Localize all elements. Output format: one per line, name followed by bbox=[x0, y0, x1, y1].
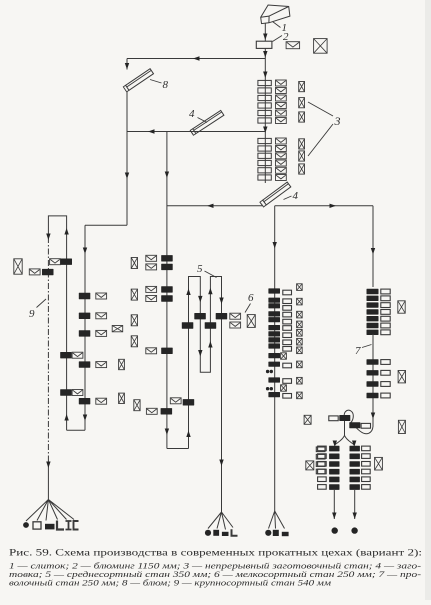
mill7 left wire down bbox=[332, 490, 336, 519]
wire mid junction bbox=[263, 127, 267, 134]
mill7 middle stands bbox=[367, 359, 391, 398]
wire blooming down bbox=[263, 48, 267, 80]
wire branch y131 (billet line) bbox=[127, 129, 265, 133]
mill6 dots bbox=[266, 370, 273, 391]
mill9 crossed box far left bbox=[14, 259, 22, 274]
svg-text:Рис. 59. Схема производства в: Рис. 59. Схема производства в современны… bbox=[9, 548, 422, 559]
mill7 right wire down bbox=[353, 490, 357, 519]
center small crossed boxes bbox=[119, 359, 141, 410]
mill5 product angle bbox=[232, 529, 238, 536]
center crossed hbox bbox=[112, 326, 123, 332]
wire bloom drop bbox=[125, 59, 129, 70]
mill5 product round bbox=[205, 530, 211, 536]
mill6 lower open rects bbox=[316, 447, 325, 474]
mill9 product square bbox=[33, 522, 41, 529]
label 3 bbox=[308, 102, 341, 156]
svg-text:волочный стан 250 мм; 8 — блюм: волочный стан 250 мм; 8 — блюм; 9 — круп… bbox=[9, 578, 332, 588]
wire y206 left bbox=[167, 204, 262, 208]
billet 4 right (3D bar) bbox=[260, 182, 291, 207]
blooming mill 2 (rect) bbox=[256, 41, 272, 48]
mill9 up arrows x66 bbox=[64, 228, 68, 421]
mill5 crossed box bbox=[247, 315, 255, 328]
center stand row5 bbox=[146, 348, 173, 354]
label 6 bbox=[245, 292, 254, 313]
mill6 crossed boxes right bbox=[297, 284, 303, 399]
mill6 fan bbox=[269, 511, 285, 529]
mill7 crossed box lower bbox=[375, 457, 383, 470]
label 4 right bbox=[284, 190, 299, 202]
mill6 product flat bbox=[282, 532, 289, 536]
wire drop x373 bbox=[371, 206, 375, 287]
svg-text:5: 5 bbox=[197, 263, 203, 275]
mill7 coil left bbox=[332, 527, 338, 533]
mill7 right open rects bbox=[362, 446, 371, 489]
crossed box at top bbox=[314, 39, 328, 54]
mill9 top bracket bbox=[48, 216, 66, 430]
mill5 stand e bbox=[170, 398, 194, 406]
wire main vertical bbox=[264, 80, 266, 183]
center crossed boxes left bbox=[131, 258, 137, 347]
wire drop x274 bbox=[273, 206, 277, 284]
mill9 chain line bbox=[46, 234, 50, 500]
center stands pair1 bbox=[146, 255, 173, 270]
svg-text:2: 2 bbox=[283, 31, 289, 43]
wire x167 down bbox=[165, 132, 169, 449]
mill9 product rail I bbox=[66, 521, 72, 530]
mill5 stand d bbox=[205, 322, 217, 328]
mill9 fan bbox=[26, 500, 74, 522]
billet 4 left (3D bar) bbox=[190, 110, 224, 135]
bloom 8 (3D bar) bbox=[123, 69, 153, 92]
label 2 bbox=[273, 31, 290, 43]
svg-text:8: 8 bbox=[163, 79, 169, 91]
label 9 bbox=[29, 299, 46, 320]
mill9 stand row1 bbox=[50, 259, 72, 265]
mill7 upper stands bbox=[367, 289, 379, 335]
mill6 vertical bbox=[274, 284, 276, 511]
label 7 bbox=[355, 345, 372, 358]
mill7 crossed box mid bbox=[398, 371, 405, 383]
svg-text:3: 3 bbox=[334, 114, 341, 128]
ingot 1 (slab, 3D) bbox=[261, 5, 290, 24]
wire branch y58 to bloom bbox=[127, 56, 265, 60]
billet mill group2 envelopes bbox=[276, 138, 287, 181]
svg-text:7: 7 bbox=[355, 345, 361, 357]
mill9 stands x85 bbox=[79, 293, 107, 405]
label 5 bbox=[197, 263, 217, 278]
mill7 left open rects bbox=[318, 446, 327, 489]
mill7 crossed box upper bbox=[398, 301, 405, 313]
center stand row6 bbox=[146, 408, 172, 414]
mill9 bottom U bbox=[67, 429, 85, 431]
mill7 upper open rects bbox=[381, 289, 390, 335]
wire ingot to blooming bbox=[263, 24, 267, 42]
mill9 product channel C bbox=[74, 521, 79, 530]
billet mill group2 crossed boxes bbox=[299, 139, 305, 174]
svg-text:4: 4 bbox=[293, 190, 299, 202]
billet mill group2 rect pairs bbox=[258, 138, 271, 180]
mill6 product square bbox=[273, 530, 279, 536]
mill7 right substands bbox=[350, 446, 360, 490]
mill5 stand b bbox=[216, 313, 228, 319]
envelope at top bbox=[286, 42, 300, 49]
mill9 stand row2 bbox=[29, 269, 53, 275]
mill6 lower crossed box2 bbox=[306, 461, 314, 470]
mill7 s-curve bbox=[333, 410, 373, 447]
svg-text:6: 6 bbox=[248, 292, 254, 304]
mill6 product round bbox=[265, 530, 271, 536]
billet mill group1 crossed boxes bbox=[299, 82, 305, 123]
mill9 product round bbox=[23, 522, 29, 528]
billet mill group1 rect pairs bbox=[258, 80, 271, 123]
mill7 crossed box loop bbox=[398, 420, 405, 433]
mill6 lower crossed box1 bbox=[304, 415, 311, 424]
mill6 inline crossed boxes bbox=[281, 353, 287, 391]
mill7 loop stand b bbox=[349, 422, 370, 428]
mill9 stands x66 lower bbox=[60, 352, 83, 396]
mill9 product flat bbox=[45, 524, 55, 530]
mill5 product square bbox=[213, 530, 219, 536]
center stands pair2 bbox=[146, 286, 173, 301]
mill5 hairpin1 bbox=[167, 277, 224, 513]
label 8 bbox=[150, 79, 169, 91]
wire bloom to mill9 bbox=[83, 92, 129, 431]
mill5 fan bbox=[208, 512, 233, 530]
mill5 product flat bbox=[222, 532, 229, 536]
svg-text:9: 9 bbox=[29, 308, 35, 320]
mill7 loop stand a bbox=[329, 415, 351, 421]
mill6 open rects bbox=[283, 290, 292, 398]
billet mill group1 envelopes bbox=[276, 80, 287, 124]
mill6 stands bbox=[268, 288, 280, 397]
wire y206 right bbox=[275, 204, 373, 208]
mill7 left substands bbox=[329, 446, 339, 490]
mill9 product angle L bbox=[57, 521, 64, 530]
mill7 coil right bbox=[351, 527, 357, 533]
mill7 wire mid bbox=[371, 334, 375, 424]
svg-text:4: 4 bbox=[189, 108, 195, 120]
label 4 left bbox=[189, 108, 207, 123]
mill5 stand a bbox=[194, 313, 240, 319]
label 1 bbox=[273, 22, 288, 35]
mill5 stand c bbox=[182, 322, 241, 329]
